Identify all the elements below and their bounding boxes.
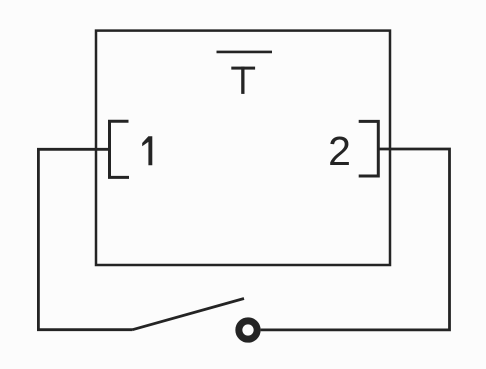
svg-text:2: 2 — [328, 128, 351, 174]
